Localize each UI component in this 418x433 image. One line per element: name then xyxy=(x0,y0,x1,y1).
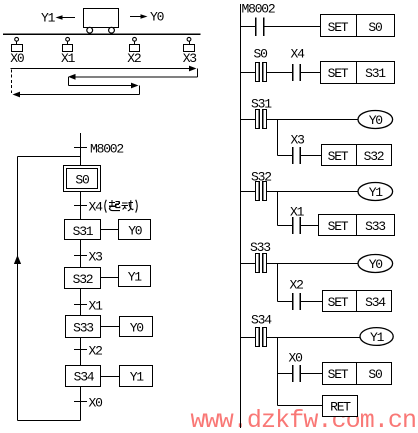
branch S32 vertical xyxy=(277,192,279,226)
svg-text:Y0: Y0 xyxy=(369,113,383,128)
state S0 inner box xyxy=(67,169,98,189)
feedback top wire xyxy=(18,156,81,158)
svg-text:S0: S0 xyxy=(75,173,89,188)
contact X3 xyxy=(292,147,294,164)
svg-text:S33: S33 xyxy=(250,240,270,255)
state S34 box xyxy=(66,366,101,387)
action Y0b box xyxy=(120,317,153,337)
branch S34 vertical xyxy=(277,338,279,406)
feedback arrowhead up xyxy=(14,255,21,264)
rung6 wire (X1 SET S33) xyxy=(278,225,293,227)
left power rail xyxy=(240,4,242,428)
svg-text:M8002: M8002 xyxy=(242,2,275,17)
RET box xyxy=(323,396,358,417)
svg-text:S31: S31 xyxy=(251,97,272,112)
contact X4 xyxy=(292,64,294,81)
svg-text:X3: X3 xyxy=(291,133,305,148)
contact X0 xyxy=(292,365,294,382)
coil Y0b xyxy=(358,255,393,273)
svg-text:X3: X3 xyxy=(89,250,103,265)
svg-text:X0: X0 xyxy=(89,396,103,411)
STL contact S33 xyxy=(256,254,260,273)
svg-text:S32: S32 xyxy=(73,272,93,287)
arrowhead left Y1 xyxy=(56,15,63,20)
arrowhead A right xyxy=(189,66,197,72)
rung2 wire xyxy=(241,72,256,74)
main vertical wire xyxy=(80,133,82,421)
SET S31 box xyxy=(321,62,395,84)
svg-text:Y1: Y1 xyxy=(128,270,143,285)
cart wheel right xyxy=(109,27,115,33)
state S33 box xyxy=(66,316,101,338)
svg-text:S0: S0 xyxy=(368,20,382,35)
rung10 wire (X0 SET S0) xyxy=(278,373,293,375)
svg-text:Y1: Y1 xyxy=(130,370,145,385)
svg-text:X2: X2 xyxy=(127,51,141,66)
svg-text:RET: RET xyxy=(330,400,351,415)
SET S0 box xyxy=(321,15,395,37)
dashed start position xyxy=(11,70,13,94)
fullwidth paren open xyxy=(105,200,107,213)
coil Y1b xyxy=(360,328,393,346)
svg-text:X4: X4 xyxy=(291,47,306,62)
svg-text:www.dzkfw.com.cn: www.dzkfw.com.cn xyxy=(191,406,417,433)
svg-text:S0: S0 xyxy=(368,367,382,382)
transition tick X4 xyxy=(74,205,87,207)
svg-text:SET: SET xyxy=(328,149,349,164)
state S32 box xyxy=(65,268,101,289)
svg-text:X1: X1 xyxy=(89,299,104,314)
svg-text:Y0: Y0 xyxy=(150,10,164,25)
rung3 wire (S31 Y0) xyxy=(241,119,256,121)
branch S33 vertical xyxy=(277,264,279,302)
cart wheel left xyxy=(87,27,93,33)
svg-text:S0: S0 xyxy=(254,47,268,62)
state S31 box xyxy=(65,220,101,240)
action Y1 box xyxy=(119,266,151,287)
path line D left xyxy=(20,94,140,96)
transition tick M8002 xyxy=(74,147,87,149)
STL contact S34 xyxy=(256,328,260,347)
svg-text:SET: SET xyxy=(328,66,349,81)
path line A right xyxy=(11,68,191,70)
transition tick X2 xyxy=(74,349,87,351)
rung5 wire (S32 Y1) xyxy=(241,191,256,193)
svg-text:S31: S31 xyxy=(365,66,386,81)
arrow left (Y1 direction) xyxy=(57,17,75,19)
hanzi dong (动) xyxy=(121,200,133,211)
svg-text:Y1: Y1 xyxy=(370,330,385,345)
STL contact S0 xyxy=(256,63,260,82)
svg-text:X4: X4 xyxy=(89,200,104,215)
rung1 wire xyxy=(241,26,256,28)
svg-text:X1: X1 xyxy=(290,205,305,220)
ground line xyxy=(3,33,201,35)
SET S32 box xyxy=(322,145,392,166)
svg-text:S31: S31 xyxy=(73,224,94,239)
svg-text:Y1: Y1 xyxy=(41,11,56,26)
svg-text:X0: X0 xyxy=(289,351,303,366)
action wire S34-Y1 xyxy=(101,376,120,378)
svg-text:Y0: Y0 xyxy=(128,224,142,239)
arrow right (Y0 direction) xyxy=(130,16,146,18)
svg-text:S33: S33 xyxy=(365,219,385,234)
hanzi qi (起) xyxy=(109,200,120,211)
rung9 wire (S34 Y1) xyxy=(241,337,256,339)
svg-text:X3: X3 xyxy=(183,51,197,66)
action wire S33-Y0 xyxy=(101,326,120,328)
STL contact S32 xyxy=(256,182,260,201)
svg-text:X2: X2 xyxy=(89,344,103,359)
action Y1b box xyxy=(120,366,153,387)
limit switches X0..X3 xyxy=(12,37,195,51)
svg-text:X2: X2 xyxy=(290,278,304,293)
arrowhead B left xyxy=(68,74,76,80)
svg-text:S34: S34 xyxy=(251,313,272,328)
contact X1 xyxy=(292,217,294,234)
svg-text:S33: S33 xyxy=(73,321,93,336)
svg-text:M8002: M8002 xyxy=(90,142,123,157)
rung8 wire (X2 SET S34) xyxy=(278,301,293,303)
action wire S32-Y1 xyxy=(101,277,119,279)
svg-text:X1: X1 xyxy=(61,51,76,66)
fullwidth paren close xyxy=(136,200,138,213)
SET S34 box xyxy=(323,291,392,312)
feedback left wire xyxy=(17,157,19,421)
rung11 wire (RET) xyxy=(278,405,323,407)
arrowhead right Y0 xyxy=(141,14,148,19)
coil Y0 xyxy=(358,111,393,129)
CJK note (起动) after X4 xyxy=(105,200,138,213)
action wire S31-Y0 xyxy=(101,229,119,231)
svg-text:S34: S34 xyxy=(365,295,386,310)
sensor X2 xyxy=(130,37,140,51)
contact M8002 xyxy=(255,18,257,37)
sensor X0 xyxy=(12,37,23,51)
branch S31 vertical xyxy=(277,120,279,156)
svg-text:Y1: Y1 xyxy=(369,185,384,200)
rung7 wire (S33 Y0) xyxy=(241,263,256,265)
action Y0 box xyxy=(119,220,151,240)
path line C right xyxy=(69,85,132,87)
path vertical V1 xyxy=(197,69,199,77)
STL contact S31 xyxy=(256,110,260,129)
path vertical V3 xyxy=(139,86,141,95)
svg-text:S34: S34 xyxy=(74,370,95,385)
sensor X3 xyxy=(184,37,195,51)
transition tick X3 xyxy=(74,255,87,257)
SET S0b box xyxy=(323,363,392,385)
rung4 wire (X3 SET S32) xyxy=(278,155,293,157)
svg-text:SET: SET xyxy=(328,367,349,382)
transition tick X0 xyxy=(74,401,87,403)
svg-text:SET: SET xyxy=(328,219,349,234)
SET S33 box xyxy=(319,215,395,236)
coil Y1 xyxy=(358,183,393,201)
svg-text:S32: S32 xyxy=(364,149,384,164)
feedback bottom wire xyxy=(18,420,81,422)
travel path arrows xyxy=(11,69,198,95)
contact X2 xyxy=(292,293,294,310)
state S0 outer box xyxy=(64,166,101,192)
svg-text:X0: X0 xyxy=(10,51,24,66)
svg-text:SET: SET xyxy=(328,295,349,310)
svg-text:Y0: Y0 xyxy=(369,257,383,272)
cart body xyxy=(84,9,119,28)
svg-text:Y0: Y0 xyxy=(130,321,144,336)
arrowhead C right xyxy=(131,83,139,89)
transition tick X1 xyxy=(74,304,87,306)
svg-text:S32: S32 xyxy=(251,170,271,185)
path vertical V2 xyxy=(68,77,70,86)
arrowhead D left xyxy=(13,92,21,98)
path line B left xyxy=(75,76,198,78)
sensor X1 xyxy=(63,37,73,51)
svg-text:SET: SET xyxy=(328,20,349,35)
